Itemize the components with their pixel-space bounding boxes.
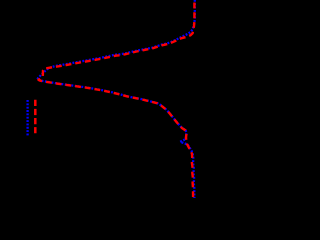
curve model 2 (red dashed, overlaid) xyxy=(39,0,195,198)
curve model 1 (blue dotted) xyxy=(37,0,195,198)
chart: line profile plot on black background xyxy=(0,0,232,225)
legend sample: red dashed vertical line xyxy=(34,100,37,136)
legend sample: blue dotted vertical line xyxy=(26,100,28,136)
